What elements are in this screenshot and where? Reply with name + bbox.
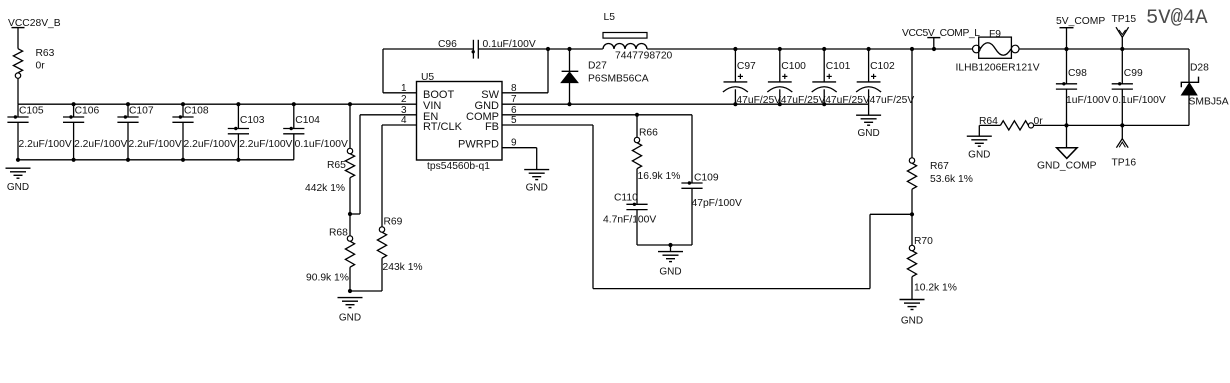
svg-text:243k 1%: 243k 1% xyxy=(383,262,423,273)
svg-text:0r: 0r xyxy=(36,61,46,72)
svg-text:2.2uF/100V: 2.2uF/100V xyxy=(184,139,237,150)
svg-text:GND_COMP: GND_COMP xyxy=(1037,161,1097,172)
svg-text:R69: R69 xyxy=(384,217,403,228)
svg-text:SMBJ5A: SMBJ5A xyxy=(1189,97,1229,108)
svg-text:C104: C104 xyxy=(295,115,320,126)
svg-text:TP15: TP15 xyxy=(1112,14,1137,25)
svg-text:BOOT: BOOT xyxy=(423,89,454,101)
svg-text:C97: C97 xyxy=(737,61,756,72)
svg-text:47uF/25V: 47uF/25V xyxy=(825,95,870,106)
svg-text:5V_COMP: 5V_COMP xyxy=(1056,16,1105,27)
svg-text:F9: F9 xyxy=(989,29,1001,40)
svg-text:47uF/25V: 47uF/25V xyxy=(781,95,826,106)
svg-text:R66: R66 xyxy=(639,128,658,139)
svg-text:GND: GND xyxy=(659,267,681,278)
svg-text:GND: GND xyxy=(339,313,361,324)
svg-text:D28: D28 xyxy=(1190,63,1209,74)
svg-text:0.1uF/100V: 0.1uF/100V xyxy=(295,139,348,150)
svg-text:2: 2 xyxy=(401,94,407,105)
svg-text:C107: C107 xyxy=(129,106,154,117)
svg-text:2.2uF/100V: 2.2uF/100V xyxy=(129,139,182,150)
svg-text:FB: FB xyxy=(485,121,499,133)
svg-text:0.1uF/100V: 0.1uF/100V xyxy=(1113,95,1166,106)
svg-text:47uF/25V: 47uF/25V xyxy=(736,95,781,106)
svg-text:C101: C101 xyxy=(826,61,851,72)
svg-text:C110: C110 xyxy=(614,193,638,204)
svg-text:R67: R67 xyxy=(930,161,949,172)
svg-text:47pF/100V: 47pF/100V xyxy=(692,198,743,209)
svg-text:C96: C96 xyxy=(438,39,457,50)
svg-text:ILHB1206ER121V: ILHB1206ER121V xyxy=(956,63,1040,74)
svg-text:RT/CLK: RT/CLK xyxy=(423,121,463,133)
svg-text:TP16: TP16 xyxy=(1112,158,1137,169)
svg-text:90.9k 1%: 90.9k 1% xyxy=(306,272,349,283)
svg-text:10.2k 1%: 10.2k 1% xyxy=(914,283,957,294)
svg-text:C100: C100 xyxy=(781,61,806,72)
svg-text:C103: C103 xyxy=(240,115,265,126)
svg-text:GND: GND xyxy=(901,316,923,327)
svg-text:C99: C99 xyxy=(1124,68,1143,79)
svg-text:L5: L5 xyxy=(604,12,616,23)
svg-text:5V@4A: 5V@4A xyxy=(1146,7,1208,30)
svg-text:2.2uF/100V: 2.2uF/100V xyxy=(19,139,72,150)
svg-text:GND: GND xyxy=(7,182,29,193)
svg-text:2.2uF/100V: 2.2uF/100V xyxy=(74,139,127,150)
svg-text:1uF/100V: 1uF/100V xyxy=(1066,95,1111,106)
svg-text:16.9k 1%: 16.9k 1% xyxy=(638,171,681,182)
svg-text:R68: R68 xyxy=(329,228,348,239)
svg-text:GND: GND xyxy=(526,183,548,194)
svg-text:C105: C105 xyxy=(19,106,44,117)
svg-text:47uF/25V: 47uF/25V xyxy=(870,95,915,106)
svg-text:VCC5V_COMP_L: VCC5V_COMP_L xyxy=(902,28,980,39)
svg-text:2.2uF/100V: 2.2uF/100V xyxy=(239,139,292,150)
svg-text:53.6k 1%: 53.6k 1% xyxy=(930,174,973,185)
svg-text:4: 4 xyxy=(401,115,407,126)
svg-text:PWRPD: PWRPD xyxy=(458,139,499,151)
svg-text:GND: GND xyxy=(857,128,879,139)
svg-text:C102: C102 xyxy=(870,61,895,72)
svg-text:R65: R65 xyxy=(327,160,346,171)
svg-text:tps54560b-q1: tps54560b-q1 xyxy=(427,161,490,172)
svg-text:P6SMB56CA: P6SMB56CA xyxy=(588,74,649,85)
svg-text:R63: R63 xyxy=(36,48,55,59)
svg-text:U5: U5 xyxy=(421,72,434,83)
svg-text:C109: C109 xyxy=(694,172,719,183)
svg-text:C106: C106 xyxy=(75,106,100,117)
svg-text:7447798720: 7447798720 xyxy=(615,51,673,62)
svg-text:R70: R70 xyxy=(914,236,933,247)
svg-text:442k 1%: 442k 1% xyxy=(305,183,345,194)
svg-text:C98: C98 xyxy=(1068,68,1087,79)
svg-text:4.7nF/100V: 4.7nF/100V xyxy=(603,215,656,226)
svg-text:GND: GND xyxy=(968,149,990,160)
svg-text:D27: D27 xyxy=(588,61,607,72)
svg-text:C108: C108 xyxy=(184,106,209,117)
svg-text:SW: SW xyxy=(481,89,499,101)
